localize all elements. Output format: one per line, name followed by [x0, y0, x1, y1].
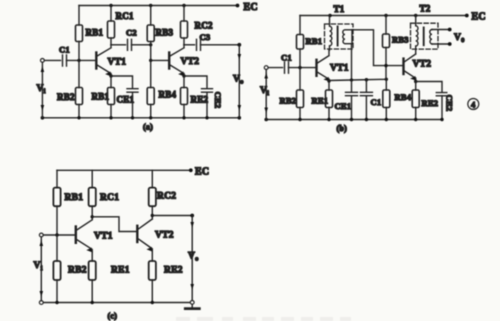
transformer T1 secondary winding [343, 30, 352, 44]
wire: C1 mid to ground (b) [365, 96, 367, 120]
arrow up on Vi line (b) [264, 73, 268, 79]
svg-text:RC2: RC2 [157, 192, 176, 202]
wire: divider to VT2 base (a) [151, 59, 168, 61]
wire: C1 mid drop (b) [365, 80, 367, 92]
svg-text:RE1: RE1 [312, 96, 329, 106]
transformer T1 dashed box [325, 24, 354, 49]
wire: C1 to VT1 base (b) [289, 67, 317, 69]
resistor RB2 (c) [53, 261, 60, 280]
svg-text:(a): (a) [143, 123, 153, 132]
wire: emitter to CE2 (a) [184, 76, 207, 88]
svg-text:VT1: VT1 [330, 64, 349, 74]
wire: T2 secondary top to output terminal [432, 29, 450, 31]
wire: C2 to RB3 column (a) [132, 44, 151, 46]
wire: Vo output line (a) [238, 45, 240, 118]
arrow down on Vi line (b) [264, 108, 268, 114]
svg-text:VT2: VT2 [155, 231, 174, 241]
resistor RB3 (a) [147, 25, 154, 42]
wire: EC supply rail (c) [57, 169, 191, 171]
terminal: ground-rail left open circle (c) [39, 301, 43, 305]
node: output terminal (c) [190, 214, 194, 218]
svg-text:RE2: RE2 [422, 98, 439, 108]
node: VT2 collector junction (c) [151, 214, 154, 217]
wire: CE1 to ground (b) [351, 96, 353, 120]
wire: ground rail (b) [266, 119, 442, 121]
wire: base node to RB2, RB2 to ground (b) [299, 68, 301, 120]
wire: collector node to C3 (a) [184, 44, 195, 46]
wire: emitter to RE2, RE2 to ground (a) [183, 76, 185, 118]
input terminal Vi (c) [39, 233, 43, 237]
arrow down bottom of Vo line (a) [238, 105, 242, 111]
svg-text:(b): (b) [337, 124, 348, 133]
node: ground rail junctions (a) [41, 116, 242, 120]
wire: emitter to CE1 (a) [111, 76, 133, 88]
arrow down on Vi line (a) [41, 105, 45, 111]
wire: RB1 to base node (a) [78, 42, 80, 61]
resistor RE2 (a) [181, 88, 188, 105]
svg-text:VT1: VT1 [108, 58, 127, 68]
svg-text:RC2: RC2 [195, 21, 213, 31]
svg-text:RE2: RE2 [164, 266, 183, 276]
resistor RB1 (b) [297, 35, 304, 50]
node: VT1 collector junction (c) [91, 215, 94, 218]
wire: VT2 emitter to RE2 (c) [151, 251, 153, 261]
node: output terminal (a) [237, 43, 241, 47]
resistor RE1 (a) [108, 88, 115, 105]
transistor VT2 (c) [137, 216, 152, 252]
svg-text:RB4: RB4 [159, 90, 177, 100]
node: VT2 emitter junction (a) [182, 74, 185, 77]
svg-text:RB1: RB1 [306, 36, 323, 46]
svg-text:EC: EC [244, 2, 258, 13]
resistor RE1 (b) [326, 90, 333, 108]
svg-text:T1: T1 [334, 4, 345, 14]
wire: ground rail (c) [43, 302, 191, 304]
wire: C1 to VT1 base (a) [67, 59, 95, 61]
svg-text:CE2: CE2 [445, 95, 455, 112]
transistor VT2 (b) [404, 50, 416, 82]
resistor RB4 (a) [147, 88, 154, 105]
svg-text:RB3: RB3 [156, 28, 174, 38]
wire: VT2 collector to output terminal (c) [152, 215, 192, 217]
node: rail junctions (a) [109, 4, 239, 8]
svg-text:RB2: RB2 [280, 96, 297, 106]
wire: collector node to C2 (a) [111, 44, 126, 46]
ground symbol (c) [185, 301, 199, 309]
wire: rail to RB3, RB3 to base node (b) [385, 16, 387, 80]
wire: RE2 to ground (c) [151, 280, 153, 303]
svg-text:RB2: RB2 [68, 266, 87, 276]
node: VT1 emitter junction (a) [109, 74, 112, 77]
transistor VT1 (c) [76, 217, 92, 252]
wire: emitter bypass bus (b) [329, 79, 386, 80]
wire: CE1 drop (b) [351, 80, 353, 92]
svg-text:VT2: VT2 [181, 57, 200, 67]
transformer T1 core [337, 27, 339, 46]
node: base divider junction (b) [298, 66, 301, 69]
svg-text:RB4: RB4 [395, 92, 412, 102]
input terminal Vi (a) [41, 59, 45, 63]
wire: rail to RC1, RC1 to collector node (a) [110, 6, 112, 45]
wire: VT1 collector to VT2 base coupling (c) [92, 217, 137, 232]
node: base divider junction (a) [77, 59, 80, 62]
svg-text:RE2: RE2 [191, 95, 209, 105]
svg-text:4: 4 [471, 100, 476, 110]
transformer T2 primary winding [416, 16, 418, 50]
transformer T2 core [423, 28, 425, 46]
svg-text:RB2: RB2 [57, 92, 75, 102]
svg-text:T2: T2 [420, 4, 431, 14]
resistor RC2 (a) [181, 21, 188, 38]
svg-text:RC1: RC1 [100, 193, 119, 203]
svg-text:C1: C1 [371, 97, 382, 107]
resistor RB2 (b) [297, 90, 304, 108]
svg-text:RC1: RC1 [116, 11, 134, 21]
capacitor C1 (a) [63, 55, 67, 66]
wire: Vo output line (c) [191, 216, 193, 301]
input terminal Vi (b) [264, 66, 268, 70]
wire: T1 secondary top to VT2 base (b) [352, 30, 403, 66]
node: VT2 emitter junction (b) [414, 80, 417, 83]
node: VT2 base divider junction (a) [149, 59, 152, 62]
capacitor C3 (a) [197, 39, 201, 50]
svg-text:EC: EC [472, 12, 486, 23]
wire: rail to RC2, RC2 to collector node (c) [151, 170, 153, 215]
capacitor CE2 (b) [436, 93, 447, 96]
capacitor C1 mid (b) [360, 92, 372, 95]
wire: input to VT1 base (c) [43, 234, 75, 236]
transformer T2 secondary winding [430, 30, 432, 45]
wire: emitter to RE1, RE1 to ground (b) [328, 81, 330, 120]
wire: rail to RB3, RB3 to VT2 base node (a) [150, 6, 152, 61]
wire: RB1 top drop (a) [78, 6, 80, 26]
wire: Vi input line (b) [265, 70, 267, 120]
node: output terminals V0 (b) [448, 28, 452, 46]
resistor RE1 (c) [89, 261, 96, 280]
node: rail junctions (b) [328, 14, 468, 18]
capacitor C2 (a) [128, 39, 132, 50]
resistor RB1 (c) [53, 188, 60, 207]
capacitor CE2 (a) [202, 89, 213, 93]
wire: Vi input line (a) [41, 62, 43, 118]
wire: RB1 top drop (b) [299, 16, 301, 35]
transformer T2 dashed box [411, 23, 439, 49]
wire: base node to RB4, RB4 to ground (a) [150, 60, 152, 117]
wire: VT1 emitter to RE1 (c) [91, 252, 93, 261]
node: bypass bus junctions (b) [350, 78, 388, 82]
wire: base node to RB2, RB2 to ground (a) [78, 60, 80, 117]
wire: bus to RB4, RB4 to ground (b) [385, 79, 387, 119]
wire: base node to RB2, RB2 to ground (c) [56, 235, 58, 303]
wire: CE1 to ground (a) [132, 92, 134, 118]
svg-text:RB1: RB1 [92, 92, 110, 102]
wire: rail to RC1, RC1 to collector node (c) [91, 170, 93, 217]
svg-text:C2: C2 [126, 28, 137, 38]
capacitor C1 input (b) [285, 62, 289, 73]
wire: RE1 to ground (c) [91, 280, 93, 303]
wire: RB1 top drop (c) [56, 170, 58, 187]
transistor VT2 (a) [169, 45, 184, 76]
svg-text:(c): (c) [108, 312, 118, 321]
svg-text:C1: C1 [281, 53, 292, 63]
wire: Vi input line (c) [40, 237, 42, 301]
node: rail end terminal (c) [189, 168, 193, 172]
resistor RE2 (b) [412, 90, 419, 108]
svg-text:V0: V0 [454, 33, 465, 44]
resistor RC2 (c) [149, 188, 156, 207]
svg-text:Vi: Vi [37, 84, 46, 95]
arrow up on Vi line (c) [40, 240, 44, 246]
resistor RC1 (a) [108, 21, 115, 38]
faint cropped caption remnant at bottom edge [176, 317, 351, 321]
resistor RE2 (c) [149, 261, 156, 280]
node: ground rail junctions (c) [55, 301, 154, 304]
node: VT2 base junction (b) [384, 64, 387, 67]
arrow up on Vi line (a) [41, 66, 45, 72]
transformer T1 primary winding [330, 16, 332, 51]
svg-text:C3: C3 [200, 32, 211, 42]
svg-text:RE1: RE1 [111, 266, 130, 276]
svg-text:RB1: RB1 [86, 28, 104, 38]
wire: RB1 to base node (b) [299, 49, 301, 68]
wire: T2 secondary bottom to output terminal [432, 43, 450, 45]
transistor VT1 (b) [317, 50, 330, 81]
wire: CE2 to ground (a) [206, 92, 208, 118]
resistor RB4 (b) [383, 90, 390, 108]
wire: ground rail (a) [42, 117, 239, 119]
node: VT1 emitter junction (b) [327, 79, 330, 82]
svg-text:VT2: VT2 [413, 60, 432, 70]
wire: rail to RC2, RC2 to collector node (a) [183, 6, 185, 45]
wire: emitter to CE2 (b) [416, 82, 442, 92]
wire: emitter to RE1, RE1 to ground (a) [110, 76, 112, 118]
wire: C3 to output terminal (a) [201, 44, 240, 46]
capacitor CE1 (a) [127, 89, 138, 93]
node: base divider junction (c) [55, 233, 58, 236]
svg-text:VT1: VT1 [94, 232, 113, 242]
node: C2/RB3 junction (a) [149, 43, 152, 46]
resistor RC1 (c) [89, 188, 96, 207]
wire: EC supply rail (b) [300, 15, 467, 17]
arrow down bottom of Vo line (c) [190, 284, 194, 290]
svg-text:C1: C1 [59, 45, 70, 55]
resistor RB2 (a) [76, 88, 83, 105]
svg-text:CE2: CE2 [213, 92, 223, 109]
svg-text:EC: EC [195, 167, 209, 178]
arrow down top of Vo line (c) [190, 222, 194, 228]
wire: CE2 to ground (b) [441, 96, 443, 120]
wire: input to C1 (b) [268, 67, 282, 69]
resistor RB1 (a) [76, 25, 83, 42]
svg-text:Vi: Vi [260, 86, 269, 97]
capacitor CE1 (b) [346, 92, 358, 95]
wire: T1 secondary bottom drop to bypass node (b) [351, 30, 354, 80]
wire: RB1 to base node (c) [56, 206, 58, 235]
svg-text:RB3: RB3 [392, 35, 409, 45]
transistor VT1 (a) [96, 45, 111, 76]
resistor RB3 (b) [383, 34, 390, 48]
svg-text:CE1: CE1 [335, 101, 352, 111]
label circled 4 [468, 99, 479, 110]
svg-text:Vo: Vo [188, 252, 199, 263]
svg-text:CE1: CE1 [117, 95, 135, 105]
arrow down top of Vo line (a) [238, 54, 242, 60]
svg-text:RB1: RB1 [65, 193, 84, 203]
node: ground rail junctions (b) [264, 118, 443, 122]
wire: EC supply rail (a) [79, 5, 238, 7]
wire: emitter to RE2, RE2 to ground (b) [415, 82, 417, 120]
arrow down on Vi line (c) [40, 291, 44, 297]
svg-text:Vo: Vo [233, 75, 244, 86]
wire: input to C1 (a) [44, 59, 60, 61]
